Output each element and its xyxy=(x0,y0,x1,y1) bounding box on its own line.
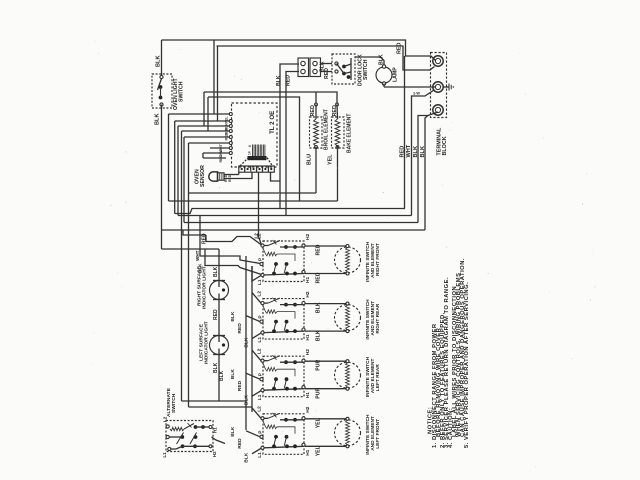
svg-text:RED: RED xyxy=(237,438,243,449)
wire - y249 line to indicator xyxy=(162,248,220,250)
svg-text:RED: RED xyxy=(286,75,292,86)
svg-text:BLK: BLK xyxy=(230,311,236,322)
svg-text:BLK: BLK xyxy=(316,330,322,341)
switch internal resistor xyxy=(266,252,278,256)
wire - WHT feed to switch1 P xyxy=(200,216,261,264)
broil element terminal top xyxy=(315,103,318,106)
wire - oven feed line y92 to bake element xyxy=(204,92,337,104)
bake element dashed box xyxy=(332,117,345,148)
infinite switch (RIGHT REAR) dashed box xyxy=(263,299,304,340)
svg-text:RED: RED xyxy=(400,146,406,158)
wire - feed P switch4 xyxy=(246,431,260,437)
wire - pin stub y153 xyxy=(203,152,230,154)
door lock switch SW2 (dashed box) xyxy=(332,54,355,84)
wire - mid band y213.5 jog y208.5 (RED net) xyxy=(175,209,405,214)
switch lower contacts xyxy=(274,320,278,324)
wire H2 to element RIGHT FRONT xyxy=(305,245,348,247)
svg-text:L2: L2 xyxy=(257,348,263,354)
right surface indicator light DS2 xyxy=(210,281,229,300)
ground symbol at lug2 xyxy=(443,86,449,88)
svg-text:RED: RED xyxy=(397,43,403,54)
svg-text:BLOCK: BLOCK xyxy=(442,136,448,155)
svg-text:BLU: BLU xyxy=(307,154,313,165)
pin L1 xyxy=(261,273,264,276)
pin L2 xyxy=(261,244,264,247)
oven light switch feed wire xyxy=(161,40,163,75)
svg-text:BLK: BLK xyxy=(413,146,419,158)
infinite switch (RIGHT FRONT) dashed box xyxy=(263,241,304,282)
surface element RIGHT FRONT (dashed circle) xyxy=(335,247,361,273)
wire H2 to element RIGHT REAR xyxy=(305,303,348,305)
board pin circles xyxy=(229,113,232,116)
switch internal resistor xyxy=(266,425,278,429)
wire - diagonal feed L2 switch2 xyxy=(252,293,261,304)
bake element zigzag xyxy=(335,119,340,146)
wire - top horizontal bus L1 (y40) xyxy=(162,40,436,61)
element coil zigzag xyxy=(346,248,350,273)
svg-text:L2: L2 xyxy=(254,233,259,239)
connector block CN1 xyxy=(298,58,309,77)
svg-text:PUR: PUR xyxy=(316,387,322,398)
pin H1 xyxy=(302,386,305,389)
svg-text:BLK: BLK xyxy=(213,266,219,277)
wire - door lock to lamp top xyxy=(355,57,384,66)
pin L1 xyxy=(261,446,264,449)
oven control board U1 (dashed outline) xyxy=(232,103,278,167)
wire - oven light switch down long vertical (BLK) xyxy=(161,105,163,231)
pin P xyxy=(260,262,263,265)
svg-text:BLK: BLK xyxy=(276,75,282,86)
wire - broil bottom down to mid band xyxy=(315,147,317,193)
wire - pin stub y137 xyxy=(184,136,230,138)
wire - x181.5 bottom turn at y401 xyxy=(182,400,247,402)
wire - feed L1 switch1 xyxy=(252,266,261,281)
switch blade top row xyxy=(264,245,268,247)
wire - second horizontal bus (y46) xyxy=(217,46,435,70)
svg-text:RED: RED xyxy=(316,272,322,283)
left surface indicator light DS3 xyxy=(210,336,229,355)
svg-text:RED: RED xyxy=(213,309,219,320)
terminal lug 1 xyxy=(433,56,443,66)
wire - feed L1 switch2 xyxy=(252,333,261,339)
alt row1: terminal + resistor + blade xyxy=(166,425,169,428)
wire - RED feed to switch1 L2 (jog) xyxy=(206,235,262,245)
svg-text:INDICATOR LIGHT: INDICATOR LIGHT xyxy=(204,321,210,364)
oven sensor RT1 bulb xyxy=(209,172,218,181)
pin P xyxy=(260,378,263,381)
wire - vertical x208 head of oven feed line y97 xyxy=(207,97,209,131)
svg-text:L1: L1 xyxy=(257,452,263,458)
wire - oven switch vertical to y249 xyxy=(161,230,163,249)
wire - mid band y230 (BLK net) xyxy=(162,229,426,231)
wire - vertical x174.7 down to mid band xyxy=(174,121,176,214)
terminal lug 3 xyxy=(433,105,443,115)
svg-text:BLK: BLK xyxy=(230,369,236,380)
switch blade top row xyxy=(264,417,268,419)
wire - diagonal feed L2 switch3 xyxy=(252,350,261,361)
board connector strip J1 (6 squares) xyxy=(239,166,274,172)
svg-text:H1: H1 xyxy=(305,449,311,455)
wire - mid band y193 (broil return) xyxy=(189,192,317,194)
pin H2 xyxy=(302,244,305,247)
alternate switch (dashed box) xyxy=(166,421,213,452)
pin L2 xyxy=(261,359,264,362)
svg-text:WHT: WHT xyxy=(195,250,200,261)
svg-text:5. VERIFY PROPER OPERATION AFT: 5. VERIFY PROPER OPERATION AFTER SERVICI… xyxy=(464,282,470,448)
wire - broil element tap up to y92 xyxy=(315,92,317,104)
wire - mid band y201 (bake return) xyxy=(169,200,338,202)
svg-text:H1: H1 xyxy=(305,334,311,340)
pin H1 xyxy=(302,328,305,331)
wire - feed L1 switch3 xyxy=(252,391,261,397)
surface element LEFT REAR (dashed circle) xyxy=(335,362,361,388)
alt row3 xyxy=(168,447,171,450)
wire - indicator top stem xyxy=(218,249,220,281)
svg-text:H2: H2 xyxy=(212,451,217,457)
switch blade top row xyxy=(264,360,268,362)
svg-text:L1: L1 xyxy=(257,337,263,343)
wire - alt switch H1 stub xyxy=(212,437,226,444)
svg-text:L1: L1 xyxy=(162,452,167,458)
svg-text:LAMP: LAMP xyxy=(393,67,399,82)
pin P xyxy=(260,435,263,438)
svg-text:H1: H1 xyxy=(305,392,311,398)
switch lower contacts xyxy=(274,435,278,439)
svg-text:PUR: PUR xyxy=(316,359,322,370)
svg-text:RED: RED xyxy=(202,233,208,244)
element coil zigzag xyxy=(346,363,350,388)
terminal block TB1 (dashed) xyxy=(431,53,447,118)
switch blade top row xyxy=(264,302,268,304)
oven light switch SW1 xyxy=(152,74,172,108)
svg-text:8: 8 xyxy=(248,145,252,147)
infinite switch (LEFT REAR) dashed box xyxy=(263,356,304,397)
svg-text:YEL: YEL xyxy=(316,417,322,428)
wire - pin stub y131 xyxy=(182,130,231,132)
svg-text:RIGHT FRONT: RIGHT FRONT xyxy=(375,243,381,276)
wire H1 to element LEFT FRONT xyxy=(305,445,348,447)
wire - mid band y222.5 (BLK net) xyxy=(184,222,418,224)
wire - connector pin6 sideways down xyxy=(271,172,281,181)
terminal lug 2 xyxy=(433,82,443,92)
wire - RED vertical right (x404.5) xyxy=(404,56,406,209)
svg-text:LEFT FRONT: LEFT FRONT xyxy=(375,419,381,449)
wire - diagonal feed L2 switch4 xyxy=(252,408,261,419)
wire - pin stub y126 xyxy=(178,125,230,127)
wire - vertical x178 down to mid band xyxy=(177,126,179,216)
svg-text:SWITCH: SWITCH xyxy=(363,59,369,80)
svg-text:RED: RED xyxy=(219,154,223,162)
surface element RIGHT REAR (dashed circle) xyxy=(335,305,361,331)
svg-text:H2: H2 xyxy=(305,349,311,355)
wire - vertical x168.5 down to mid band xyxy=(168,114,170,201)
wire - feed L1 switch4 xyxy=(252,448,261,454)
svg-text:RED: RED xyxy=(225,132,229,140)
svg-text:BLK: BLK xyxy=(156,56,162,68)
broil element dashed box xyxy=(310,117,323,148)
wire - pin stub y121 xyxy=(175,120,230,122)
svg-text:RED: RED xyxy=(324,68,330,79)
svg-text:LEFT REAR: LEFT REAR xyxy=(375,364,381,391)
switch internal resistor xyxy=(266,367,278,371)
wire - BLK pair from terminal bottom xyxy=(418,112,438,223)
wire - feed P switch3 xyxy=(246,373,260,379)
wire - left indicator bottom drop xyxy=(218,355,220,402)
svg-text:INDICATOR LIGHT: INDICATOR LIGHT xyxy=(202,266,208,309)
wire - vertical x181.5 long down to switch area xyxy=(181,131,183,401)
connector block CN2 xyxy=(310,58,321,77)
svg-text:RIGHT REAR: RIGHT REAR xyxy=(375,303,381,333)
wire - vertical x214 from bus L1 to board pin xyxy=(213,40,215,114)
wire - vertical x184 down to mid band xyxy=(183,137,185,223)
svg-text:BLK: BLK xyxy=(230,426,236,437)
svg-text:BLK: BLK xyxy=(379,54,385,65)
svg-text:BLK: BLK xyxy=(219,370,225,381)
svg-text:BAKE ELEMENT: BAKE ELEMENT xyxy=(347,114,353,153)
switch lower contacts xyxy=(274,262,278,266)
svg-text:BLK: BLK xyxy=(316,302,322,313)
surface element LEFT FRONT (dashed circle) xyxy=(335,420,361,446)
broil element zigzag xyxy=(314,119,319,146)
svg-text:BLK: BLK xyxy=(155,114,161,126)
wire - vertical x217 from bus2 to board pin xyxy=(217,46,219,121)
oven lamp DS1 xyxy=(376,67,392,83)
wire - sensor lead to connector strip xyxy=(224,174,239,176)
svg-text:L2: L2 xyxy=(257,406,263,412)
svg-text:14: 14 xyxy=(248,151,252,155)
wire - bake bottom down to mid band xyxy=(337,146,339,201)
wire H2 to element LEFT FRONT xyxy=(305,418,348,420)
wire H1 to element RIGHT REAR xyxy=(305,330,348,332)
svg-text:SWITCH: SWITCH xyxy=(179,81,185,102)
wire - connector to door lock switch xyxy=(321,63,333,65)
svg-text:SENSOR: SENSOR xyxy=(200,165,206,187)
svg-text:H2: H2 xyxy=(305,406,311,412)
svg-text:TL 2 OE: TL 2 OE xyxy=(269,111,276,134)
switch internal resistor xyxy=(266,310,278,314)
svg-text:BROIL ELEMENT: BROIL ELEMENT xyxy=(324,109,330,150)
svg-text:RED: RED xyxy=(237,323,243,334)
svg-text:YEL: YEL xyxy=(328,154,334,165)
wire - WHT from terminal middle xyxy=(412,90,435,216)
svg-text:YEL: YEL xyxy=(316,445,322,456)
wire - pin stub y114 xyxy=(169,113,231,115)
pin H1 xyxy=(302,270,305,273)
pin H1 xyxy=(302,443,305,446)
wire - pin stub y148 xyxy=(210,147,230,149)
infinite switch (LEFT FRONT) dashed box xyxy=(263,414,304,455)
svg-text:H1: H1 xyxy=(213,427,218,433)
wire - vertical x204 head of oven feed line y92 xyxy=(203,92,205,126)
svg-text:BLK: BLK xyxy=(244,395,250,406)
svg-text:1-W: 1-W xyxy=(413,92,420,96)
svg-text:L2: L2 xyxy=(257,291,263,297)
wire H2 to element LEFT REAR xyxy=(305,360,348,362)
board ribbon cable block xyxy=(253,145,265,157)
pin L1 xyxy=(261,331,264,334)
wire - connector block RED drop (x286) xyxy=(286,72,299,216)
svg-text:YEL: YEL xyxy=(225,116,229,124)
switch lower contacts xyxy=(274,377,278,381)
wire - BLK feed to switch1 L1 xyxy=(205,249,262,275)
wire - feed P switch2 xyxy=(246,316,260,322)
wire H1 to element RIGHT FRONT xyxy=(305,273,348,275)
svg-text:L1: L1 xyxy=(257,279,263,285)
wire - between indicators RED xyxy=(218,300,220,336)
pin P xyxy=(260,320,263,323)
element coil zigzag xyxy=(346,305,350,330)
wire - x188.5 bottom turn at y407 xyxy=(189,406,253,408)
wire H1 to element LEFT REAR xyxy=(305,388,348,390)
svg-text:RED: RED xyxy=(310,105,316,116)
wire - mid band y215.5 (WHT net) xyxy=(178,215,412,217)
pin L2 xyxy=(261,417,264,420)
wire - connector pin4 down to switch1 L2 jog xyxy=(259,172,262,245)
svg-text:L1: L1 xyxy=(257,394,263,400)
svg-text:H1: H1 xyxy=(305,277,311,283)
wire - connector block BLK drop (x280) xyxy=(280,64,299,209)
wire - pin stub y143 xyxy=(189,142,231,144)
svg-text:RED: RED xyxy=(316,244,322,255)
element coil zigzag xyxy=(346,420,350,445)
wire - vertical x188.5 long down to switch area xyxy=(188,143,190,407)
alt row2 xyxy=(166,435,169,438)
svg-text:SWITCH: SWITCH xyxy=(171,393,177,413)
wire - lamp bottom to terminal block middle xyxy=(383,84,385,88)
svg-text:BLK: BLK xyxy=(244,337,250,348)
board connector trapezoid xyxy=(240,158,273,167)
oven sensor connector ridges xyxy=(218,173,225,180)
pin L2 xyxy=(261,302,264,305)
svg-text:L2: L2 xyxy=(163,416,168,422)
wire - oven feed line y97 turning down at x299.5 xyxy=(208,97,300,201)
svg-text:BLK: BLK xyxy=(244,452,250,463)
wire - chain vertical x252 xyxy=(251,266,253,412)
wire - sensor return to connector xyxy=(224,172,252,178)
pin H2 xyxy=(302,359,305,362)
svg-text:H2: H2 xyxy=(305,234,311,240)
svg-text:H2: H2 xyxy=(305,291,311,297)
pin H2 xyxy=(302,417,305,420)
svg-text:BLK: BLK xyxy=(420,146,426,158)
pin L1 xyxy=(261,389,264,392)
svg-text:WHT: WHT xyxy=(406,144,412,157)
bake element terminal top xyxy=(336,103,339,106)
svg-text:RED: RED xyxy=(237,380,243,391)
pin H2 xyxy=(302,302,305,305)
wire - chain vertical x246 xyxy=(245,256,247,430)
wire - short y235 stub xyxy=(183,230,206,235)
